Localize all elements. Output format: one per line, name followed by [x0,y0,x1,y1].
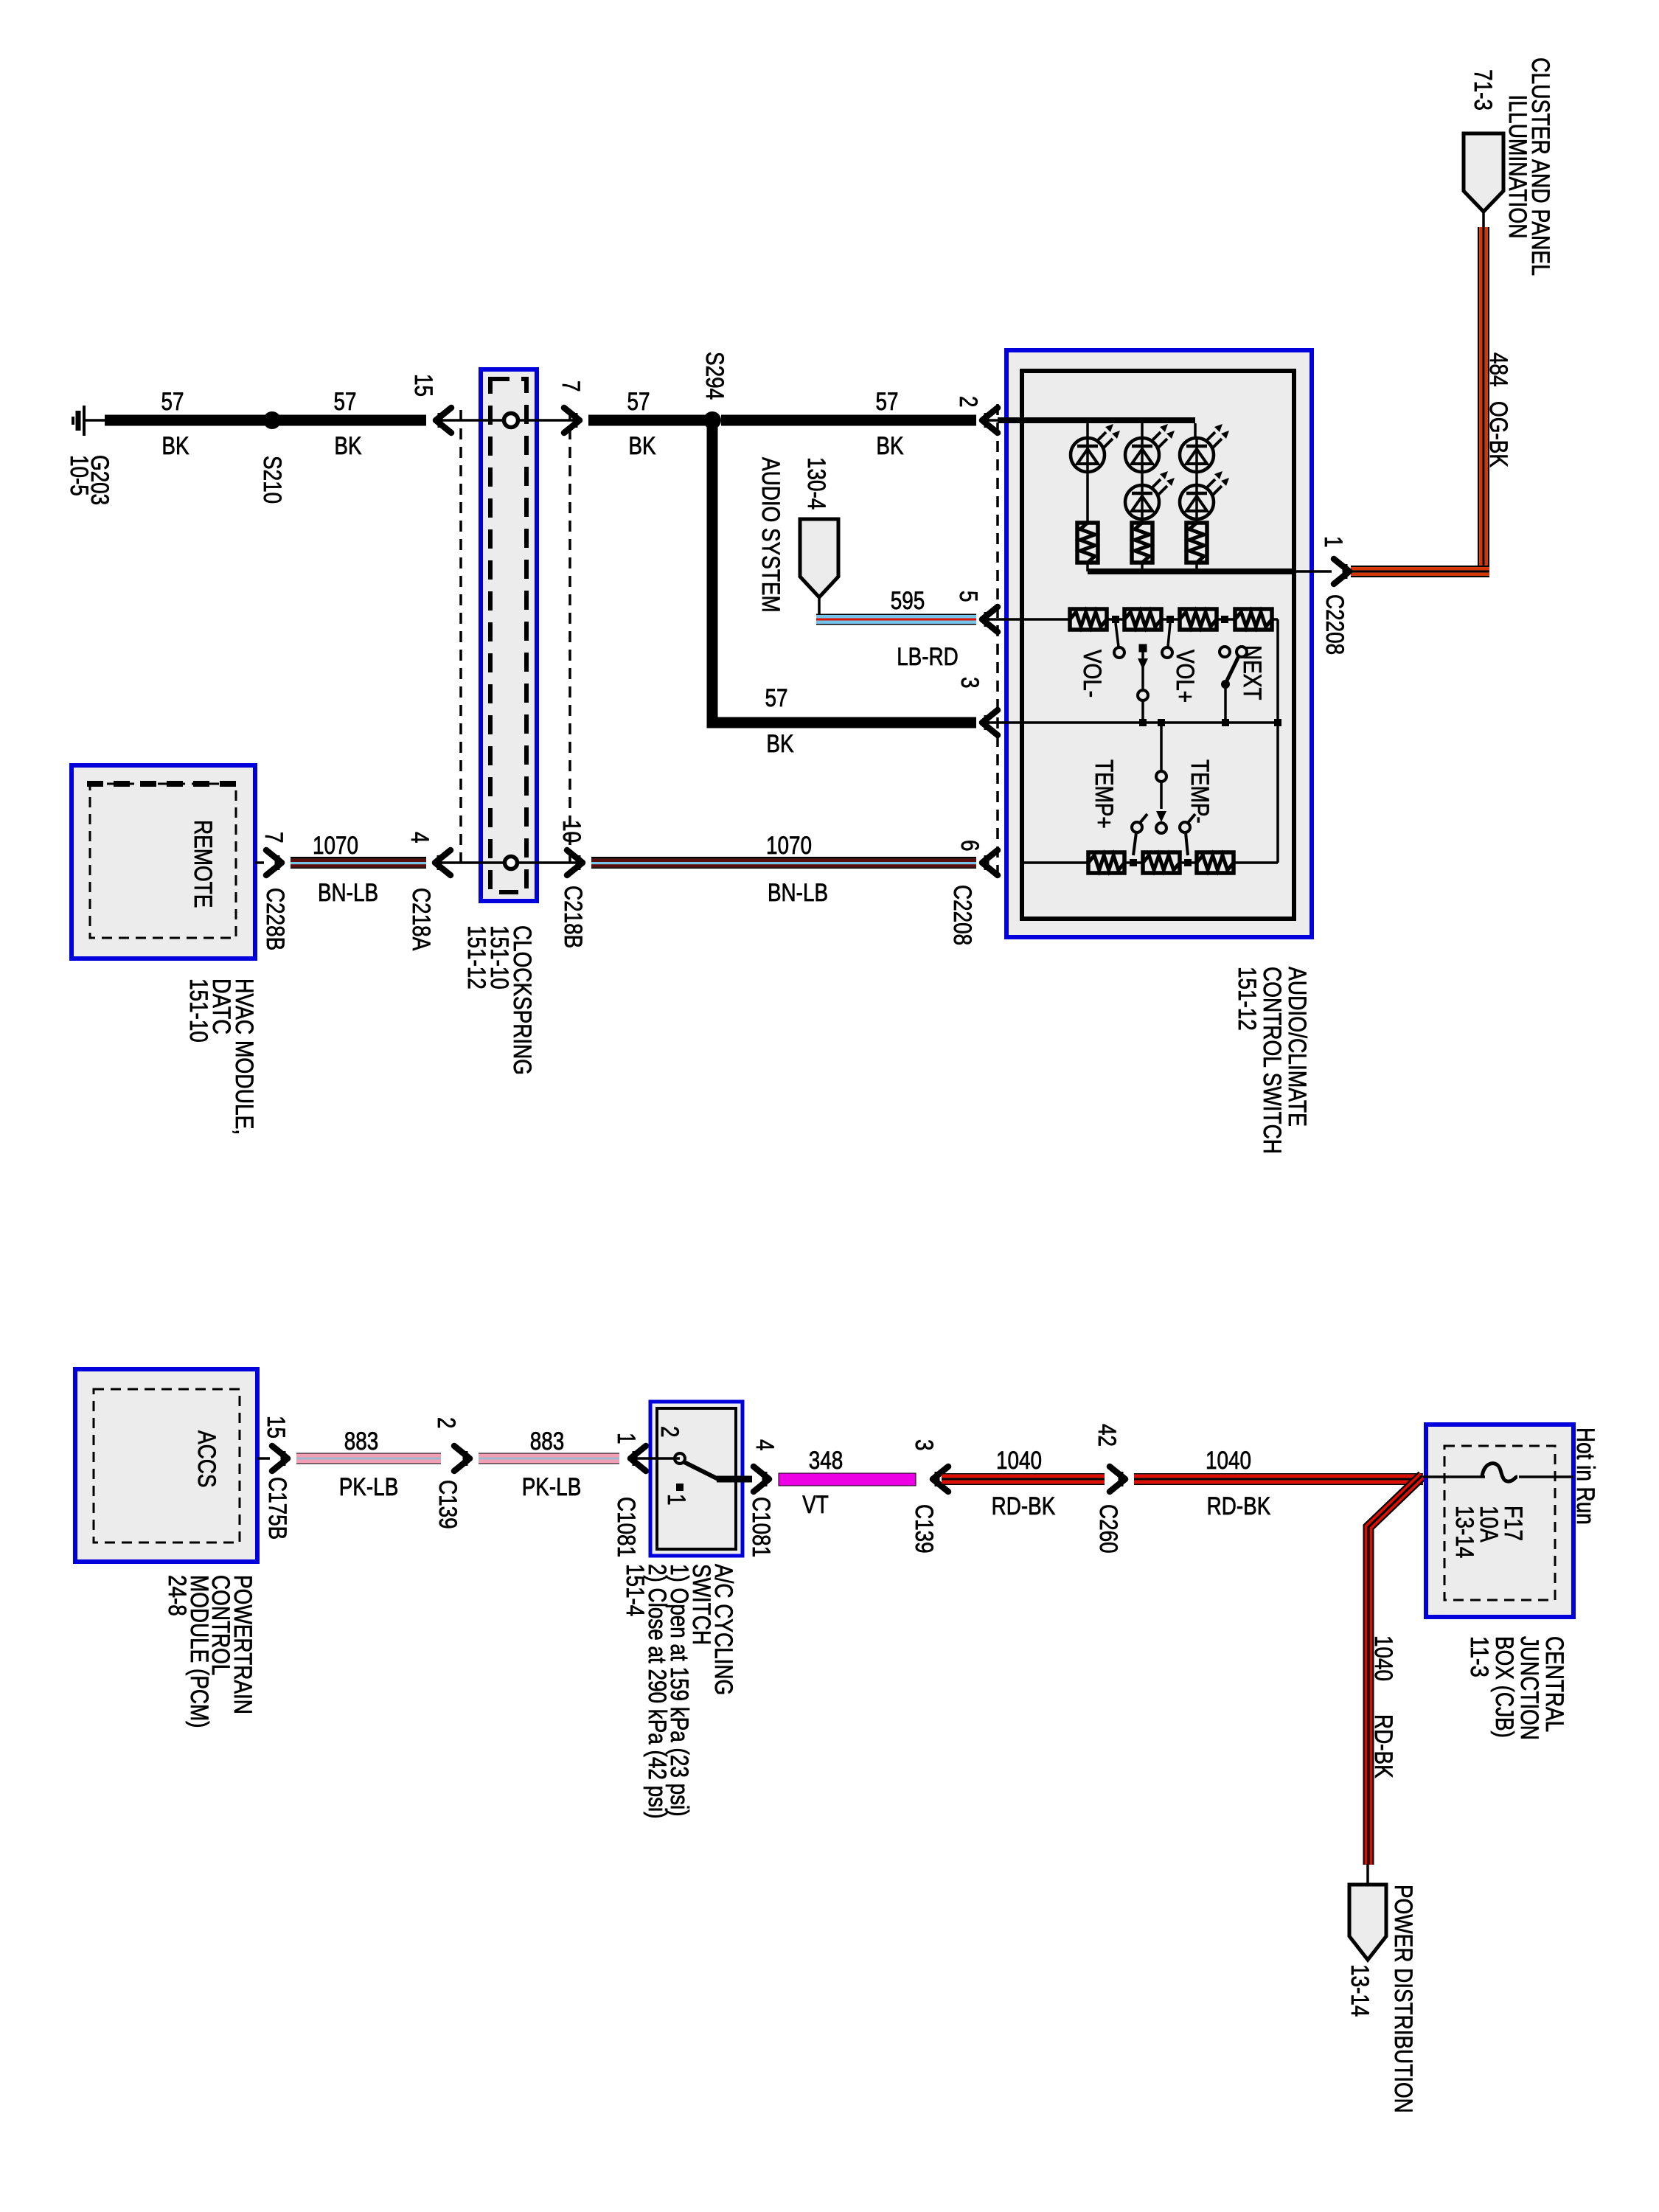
connector arrow pin 1 C2208 [1334,559,1349,584]
temp resistor row [1023,861,1088,864]
svg-text:71-3: 71-3 [1469,69,1497,111]
svg-text:C139: C139 [910,1504,938,1554]
svg-text:10: 10 [557,820,585,843]
A/C cycling switch box [650,1402,742,1556]
svg-text:S294: S294 [700,352,728,400]
svg-text:CENTRAL: CENTRAL [1540,1636,1568,1732]
links between switch resistors [1107,618,1124,621]
svg-text:BN-LB: BN-LB [318,879,378,907]
ground G203 10-5 [83,406,86,436]
connector arrow pin 6 C2208 [982,850,998,875]
wire 1070 BN-LB segment 1 [291,857,426,859]
illumination return bus to pin 1 [1086,563,1089,571]
svg-text:ACCS: ACCS [192,1430,220,1488]
clockspring dashed flank left [459,410,462,870]
svg-text:57: 57 [765,684,788,712]
svg-text:2: 2 [954,396,982,408]
wire through clockspring top [436,419,580,422]
wire to power distribution connector [1366,1864,1369,1885]
svg-text:C218A: C218A [407,888,435,950]
connector arrow pin 2 C139 [454,1446,470,1471]
svg-text:15: 15 [409,374,437,397]
svg-text:883: 883 [530,1427,565,1455]
wire 57 BK S294 branch to pin 3 [712,420,976,723]
connector arrow pin 1 C1081 [630,1446,646,1471]
connector arrow pin 10 C218B [567,850,582,875]
svg-text:POWER DISTRIBUTION: POWER DISTRIBUTION [1389,1885,1417,2113]
svg-text:C139: C139 [434,1480,462,1529]
svg-text:3: 3 [910,1439,938,1451]
svg-text:1: 1 [1319,536,1347,548]
lamp 1 [1071,438,1105,472]
switch resistor 1 [1070,609,1107,630]
svg-text:5: 5 [954,591,982,602]
connector arrow pin 5 C2208 [982,607,998,632]
connector arrow pin 2 C2208 [982,408,998,433]
svg-text:C175B: C175B [263,1477,291,1540]
svg-text:BN-LB: BN-LB [768,879,828,907]
svg-text:REMOTE: REMOTE [189,820,217,908]
connector arrow pin 42 C260 [1110,1467,1125,1492]
svg-text:BK: BK [334,432,361,460]
svg-text:1070: 1070 [313,832,358,860]
wire 595 LB-RD [818,596,821,618]
wire 57 BK segment ground to S210 [105,415,267,426]
svg-text:OG-BK: OG-BK [1484,401,1512,467]
svg-text:C2208: C2208 [948,885,976,945]
connector arrow pin 7 C218B [564,408,580,433]
resistor lamp 1 [1077,523,1098,563]
svg-text:LB-RD: LB-RD [897,643,959,671]
connector arrow pin 4 C218A [435,850,451,875]
svg-text:TEMP-: TEMP- [1186,759,1214,824]
lamp leads to resistors [1086,472,1089,523]
svg-text:C218B: C218B [559,886,587,948]
svg-text:1: 1 [612,1433,640,1444]
svg-text:C1081: C1081 [612,1497,640,1557]
wire 1040 RD-BK segment 2 [1134,1473,1423,1475]
svg-text:3: 3 [956,677,984,689]
svg-text:CONTROL SWITCH: CONTROL SWITCH [1258,967,1286,1154]
wire into A/C switch [630,1457,680,1460]
resistor lamp 3 [1186,523,1207,563]
wire through clockspring bottom [435,861,582,864]
svg-text:883: 883 [344,1427,379,1455]
svg-text:BK: BK [628,432,655,460]
svg-text:24-8: 24-8 [163,1575,191,1616]
wire 57 BK segment clockspring to S294 [588,415,706,426]
svg-text:13-14: 13-14 [1450,1506,1478,1558]
temp pole [1160,723,1163,771]
wire 57 BK segment S210 to clockspring [279,415,426,426]
svg-text:PK-LB: PK-LB [522,1473,582,1501]
svg-text:AUDIO/CLIMATE: AUDIO/CLIMATE [1283,967,1311,1127]
svg-text:TEMP+: TEMP+ [1090,759,1118,829]
svg-text:C260: C260 [1094,1504,1122,1554]
audio/climate control switch box [1006,350,1312,937]
svg-text:RD-BK: RD-BK [992,1492,1056,1520]
svg-text:2: 2 [432,1417,460,1429]
connector arrow pin 7 C228B [266,850,282,875]
svg-text:484: 484 [1484,352,1512,387]
A/C switch contacts [675,1453,685,1464]
resistor lamp 2 [1132,523,1152,563]
svg-text:AUDIO SYSTEM: AUDIO SYSTEM [757,457,785,613]
central junction box [1426,1425,1573,1617]
switch resistor 2 [1124,609,1161,630]
wire 883 PK-LB segment 1 [296,1453,441,1454]
switch common bus pin 3 [1023,721,1278,724]
HVAC module box [72,765,255,959]
svg-text:VOL-: VOL- [1078,650,1106,698]
svg-text:BK: BK [766,730,793,758]
svg-text:595: 595 [891,587,925,615]
splice S294 [703,411,721,429]
clockspring ring bottom [505,857,518,869]
switch VOL- [1116,623,1119,647]
PCM box [75,1369,257,1562]
wire 348 VT [779,1473,916,1486]
illumination bus from pin 2 [998,417,1195,423]
wire 484 OG-BK vertical segment [1482,212,1485,229]
svg-text:57: 57 [627,388,650,416]
svg-text:Hot in Run: Hot in Run [1571,1427,1599,1525]
svg-text:151-12: 151-12 [462,925,490,990]
svg-text:42: 42 [1093,1424,1121,1447]
svg-text:1040: 1040 [1369,1635,1397,1681]
svg-text:57: 57 [334,388,357,416]
wire 883 PK-LB segment 2 [479,1453,619,1454]
right rail [1276,619,1279,863]
clockspring body [481,369,537,901]
connector face dashed line C2208 [996,404,999,877]
off-page connector to CLUSTER AND PANEL ILLUMINATION 71-3 [1464,133,1503,212]
switch TEMP+ [1132,822,1142,832]
wire 57 BK segment S294 to pin 2 [721,415,976,426]
switch NEXT [1220,647,1230,657]
wire 1070 BN-LB segment 2 [591,857,976,859]
svg-text:PK-LB: PK-LB [339,1473,399,1501]
wire 1040 RD-BK segment 1 [942,1473,1105,1475]
svg-text:1040: 1040 [996,1447,1042,1475]
svg-text:VT: VT [802,1491,829,1519]
wire into box pin 5 [982,618,1071,621]
switch resistor 4 [1235,609,1272,630]
off-page connector POWER DISTRIBUTION 13-14 [1349,1885,1386,1960]
svg-text:1: 1 [662,1494,690,1506]
svg-text:1070: 1070 [766,832,812,860]
clockspring dashed flank right [568,410,571,870]
lamp 4 [1125,485,1159,519]
svg-text:BK: BK [161,432,189,460]
svg-text:C228B: C228B [261,888,289,950]
svg-text:2: 2 [655,1426,684,1438]
connector arrow pin 3 C139 [933,1467,948,1492]
svg-text:JUNCTION: JUNCTION [1515,1636,1543,1740]
svg-text:15: 15 [262,1416,290,1439]
svg-text:151-4: 151-4 [621,1564,649,1616]
wire inside CJB with fuse F17 [1423,1475,1485,1478]
connector arrow pin 3 C2208 [982,710,998,735]
svg-text:151-10: 151-10 [184,978,212,1043]
svg-text:C1081: C1081 [747,1497,775,1557]
svg-text:VOL+: VOL+ [1171,650,1199,703]
svg-text:348: 348 [809,1447,844,1475]
mode pole with diode [1139,644,1147,653]
svg-text:S210: S210 [258,456,286,504]
wire 484 OG-BK horizontal segment to pin 1 C2208 [1351,566,1489,567]
switch resistor 3 [1180,609,1217,630]
svg-text:1040: 1040 [1206,1447,1251,1475]
clockspring ring top [504,414,518,428]
wire from HVAC pin 7 [255,861,264,864]
svg-text:10-5: 10-5 [65,455,93,496]
svg-text:4: 4 [406,832,434,844]
svg-text:7: 7 [260,832,288,844]
svg-text:ILLUMINATION: ILLUMINATION [1503,94,1531,238]
svg-text:151-12: 151-12 [1233,967,1261,1031]
svg-text:BK: BK [876,432,903,460]
svg-text:130-4: 130-4 [802,457,830,509]
svg-text:57: 57 [161,388,184,416]
lamp 3 [1180,438,1214,472]
svg-text:NEXT: NEXT [1238,645,1266,700]
off-page connector to AUDIO SYSTEM 130-4 [800,519,838,597]
svg-text:7: 7 [557,380,585,392]
svg-text:6: 6 [956,840,984,852]
connector arrow pin 15 C175B [272,1446,288,1471]
connector arrow pin 4 C1081 [754,1467,769,1492]
splice S210 [263,411,281,429]
svg-text:BOX (CJB): BOX (CJB) [1490,1636,1518,1738]
svg-text:11-3: 11-3 [1465,1636,1493,1677]
wire from PCM pin 15 [257,1457,270,1460]
svg-text:C2208: C2208 [1321,594,1349,655]
svg-text:57: 57 [876,388,899,416]
svg-text:13-14: 13-14 [1346,1964,1374,2017]
switch TEMP- [1180,822,1190,832]
lamp 2 [1125,438,1159,472]
lamp 5 [1180,485,1214,519]
wire 1040 RD-BK bend and vertical run [1368,1475,1422,1865]
svg-text:RD-BK: RD-BK [1207,1492,1271,1520]
switch VOL+ [1168,623,1170,647]
svg-text:RD-BK: RD-BK [1369,1714,1397,1778]
svg-text:4: 4 [751,1439,779,1451]
wire into box pin 2 [982,419,1023,422]
wire into box pin 3 [982,721,1023,724]
connector arrow pin 15 C218A [436,408,451,433]
